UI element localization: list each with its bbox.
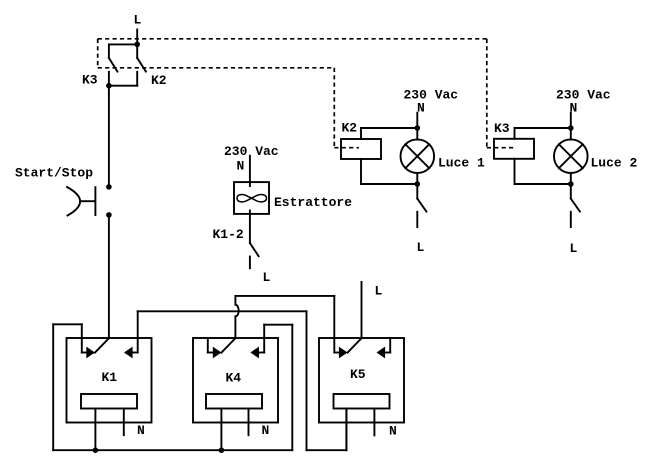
svg-text:K1-2: K1-2 [213,227,244,242]
svg-text:N: N [389,424,397,439]
svg-text:230 Vac: 230 Vac [224,144,279,159]
svg-text:L: L [263,270,271,285]
svg-text:N: N [237,159,245,174]
svg-text:K3: K3 [82,73,98,88]
svg-text:L: L [375,284,383,299]
svg-text:Luce 2: Luce 2 [591,156,638,171]
svg-text:K4: K4 [226,371,242,386]
svg-text:K2: K2 [342,121,358,136]
svg-text:N: N [262,423,270,438]
svg-text:N: N [417,101,425,116]
svg-text:230 Vac: 230 Vac [404,88,459,103]
svg-text:K1: K1 [102,370,118,385]
svg-text:K3: K3 [494,121,510,136]
svg-text:L: L [134,13,142,28]
svg-text:K5: K5 [350,367,366,382]
svg-text:Estrattore: Estrattore [274,195,352,210]
svg-text:L: L [417,240,425,255]
svg-text:Start/Stop: Start/Stop [15,166,93,181]
svg-text:230 Vac: 230 Vac [556,88,611,103]
svg-text:Luce 1: Luce 1 [438,156,485,171]
svg-text:N: N [570,101,578,116]
svg-text:N: N [137,423,145,438]
svg-text:L: L [570,241,578,256]
svg-text:K2: K2 [151,73,167,88]
